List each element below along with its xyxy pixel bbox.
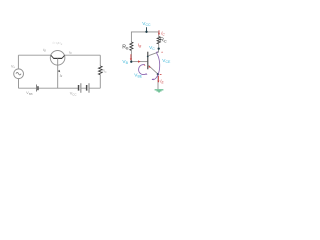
svg-text:iB: iB <box>43 48 46 53</box>
